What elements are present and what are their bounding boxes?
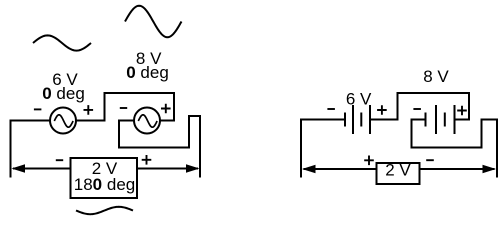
wire V2 minus down and around to right terminal <box>119 116 200 178</box>
result box 2 V 180 deg <box>71 158 138 198</box>
waveform of 8 V source <box>125 6 182 38</box>
svg-text:2 V: 2 V <box>385 161 411 180</box>
wire B2 minus down and around to right terminal <box>412 120 498 178</box>
AC source V2 (8 V 0 deg) <box>134 108 160 134</box>
waveform of 6 V source <box>33 35 91 50</box>
waveform of 2 V 180 deg result (inverted) <box>76 207 133 214</box>
arrowhead right (right circuit) <box>483 165 497 173</box>
total voltage line left segment <box>13 168 71 170</box>
wire V1 minus terminal to left rail down <box>11 121 50 178</box>
total voltage line left segment (right circuit) <box>304 168 377 170</box>
minus sign of V2 <box>120 107 127 109</box>
arrowhead right (left circuit) <box>186 164 200 172</box>
svg-text:6 V: 6 V <box>346 90 372 109</box>
wire B1 plus over top loop to B2 plus <box>370 93 469 120</box>
plus sign of B2 <box>457 106 467 116</box>
svg-text:8 V: 8 V <box>423 67 449 86</box>
plus sign total voltage (right circuit) <box>364 156 374 166</box>
plus sign of B1 <box>377 105 387 115</box>
arrowhead left (left circuit) <box>12 164 26 172</box>
total voltage line right segment (right circuit) <box>420 168 495 170</box>
minus sign total voltage (left circuit) <box>56 159 63 161</box>
total voltage line right segment <box>137 168 198 170</box>
minus sign of B2 <box>413 108 421 110</box>
svg-text:0 deg: 0 deg <box>42 84 85 103</box>
arrowhead left (right circuit) <box>302 165 316 173</box>
battery B1 (6 V): plates <box>345 105 370 134</box>
plus sign of V2 <box>161 104 171 114</box>
wire B1 minus terminal to left rail down <box>301 120 345 178</box>
plus sign of V1 <box>84 105 94 115</box>
svg-text:0 deg: 0 deg <box>126 63 169 82</box>
AC source V1 (6 V 0 deg) <box>50 108 76 134</box>
wire V1 plus over top loop to V2 plus <box>76 93 174 121</box>
svg-text:180 deg: 180 deg <box>74 175 135 194</box>
minus sign of V1 <box>34 108 42 110</box>
battery B2 (8 V): plates <box>426 105 455 134</box>
minus sign total voltage (right circuit) <box>426 159 434 161</box>
minus sign of B1 <box>327 108 335 110</box>
plus sign total voltage (left circuit) <box>142 155 152 165</box>
result box 2 V <box>377 163 420 184</box>
